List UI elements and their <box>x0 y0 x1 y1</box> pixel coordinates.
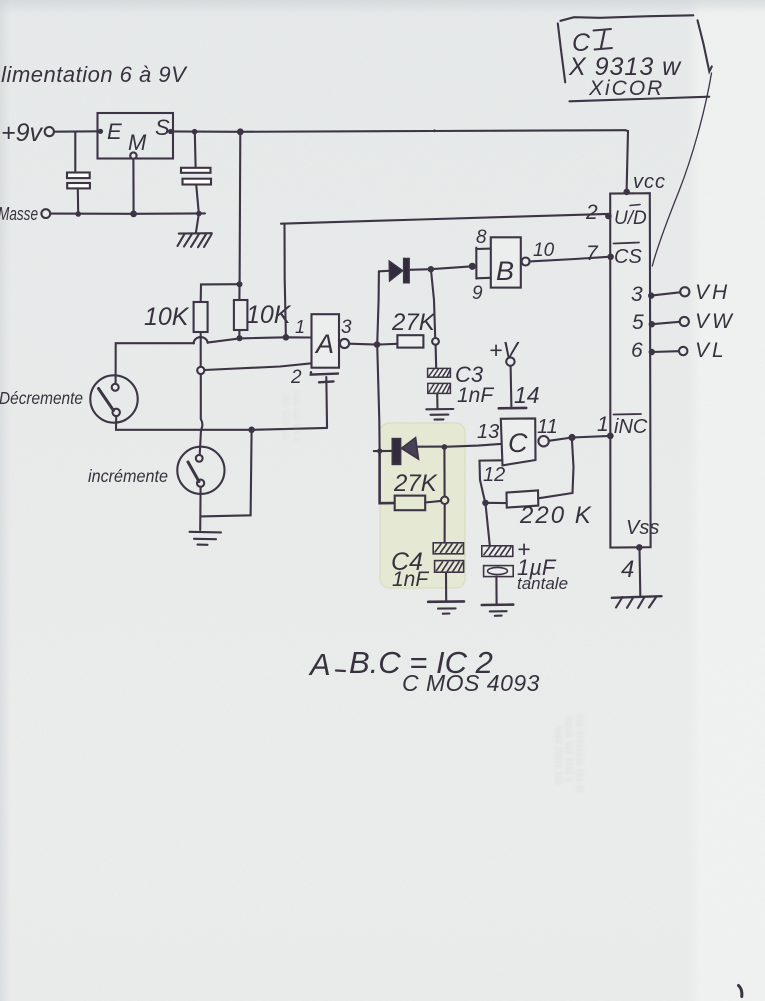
wire gate A output to node <box>349 343 377 346</box>
svg-text:B: B <box>496 256 514 286</box>
terminal +V circle <box>506 357 514 365</box>
svg-text:2: 2 <box>585 201 598 224</box>
wire junction to IC pin 1 <box>572 436 610 438</box>
svg-text:+V: +V <box>489 337 520 363</box>
wire R1 bottom lead <box>200 332 202 370</box>
resistor R1 10K body <box>194 302 208 332</box>
svg-text:1111 111 111 1: 1111 111 111 1 <box>292 390 301 442</box>
switch S1 bottom contact <box>113 409 120 416</box>
svg-text:8: 8 <box>476 227 487 248</box>
junction dot D2/R4 node <box>442 444 448 450</box>
svg-text:27K: 27K <box>393 470 438 497</box>
wire R2 bottom lead <box>238 330 240 338</box>
pin Vcc dot <box>623 189 630 196</box>
wire node A to gate A pin 2 <box>204 363 311 370</box>
capacitor C4 plate2 hatched <box>435 561 464 573</box>
svg-text:iNC: iNC <box>614 416 648 438</box>
svg-text:5: 5 <box>632 311 644 334</box>
wire pin2 cap vertical <box>325 377 328 428</box>
switch S1 Decremente circle <box>90 375 137 422</box>
pin 14 supply bar <box>499 407 526 410</box>
wire pin 5 to VW terminal <box>652 322 680 324</box>
CI label box left edge <box>558 23 565 82</box>
wire S2 bottom to ground <box>199 487 202 530</box>
highlight patch behind C4 area <box>380 423 465 588</box>
wire C5 to ground <box>495 577 497 605</box>
svg-text:1nF: 1nF <box>457 384 494 407</box>
svg-text:VW: VW <box>695 310 735 333</box>
capacitor C5 1uF plate1 hatched <box>482 546 513 557</box>
diode D2 cathode bar <box>392 439 400 465</box>
wire B output to IC pin7 <box>530 257 609 262</box>
switch S2 lever <box>188 462 199 482</box>
pen mark bottom right <box>739 986 742 997</box>
switch S2 top contact <box>196 455 203 462</box>
svg-text:incrémente: incrémente <box>88 466 168 486</box>
ground G3 under C3 <box>426 408 453 410</box>
wire D1 cathode to node B <box>409 268 431 271</box>
svg-text:27K: 27K <box>391 309 436 336</box>
svg-text:CS: CS <box>614 246 642 268</box>
wire left rail up to diode D1 anode <box>377 271 379 344</box>
gate B pin8 stub <box>476 247 496 250</box>
diode D1 triangle <box>389 261 402 281</box>
wire +9V rail from regulator to right corner <box>171 130 625 132</box>
svg-text:Vss: Vss <box>626 517 659 539</box>
pin 1 dot <box>607 433 614 440</box>
wire R4 circle down to C4 <box>444 504 446 543</box>
wire vertical feed to resistors <box>239 132 242 284</box>
svg-text:11: 11 <box>537 416 558 438</box>
wire masse rail <box>50 212 205 215</box>
junction dot D1/R3 node <box>428 266 434 272</box>
capacitor C2 plate2 <box>183 179 212 185</box>
R4 right terminal circle <box>441 497 448 504</box>
wire C output to junction <box>549 438 572 441</box>
capacitor C3 plate2 hatched <box>428 383 451 393</box>
svg-text:vcc: vcc <box>633 171 666 193</box>
switch S2 Incremente circle <box>177 447 224 494</box>
capacitor C1 plate1 <box>67 173 90 179</box>
pin 7 dot <box>607 253 614 260</box>
wire D2 anode to node C <box>418 446 444 448</box>
ground G1 <box>179 232 212 235</box>
resistor R3 27K body <box>397 335 423 347</box>
gate A box <box>312 314 340 368</box>
wire C3 to ground <box>436 394 438 409</box>
diode D1 cathode bar <box>404 258 410 282</box>
junction dot U/D feed on pin1 wire <box>283 334 290 341</box>
terminal VL circle <box>679 347 687 355</box>
resistor R5 220K body <box>507 490 539 507</box>
capacitor C1 plate2 <box>67 183 90 188</box>
wire left rail bottom corner to R4 <box>380 451 395 503</box>
svg-text:S: S <box>155 115 170 140</box>
pin 2 dot <box>605 213 612 220</box>
svg-text:U/D: U/D <box>614 208 647 229</box>
junction dot masse/C2 <box>196 211 202 217</box>
wire pin 4 to ground <box>638 548 641 596</box>
ground G4 under C4 <box>428 600 464 603</box>
CI label box bottom edge <box>570 97 710 102</box>
bleedthrough faint marks right <box>554 714 585 794</box>
regulator pin E dot <box>98 129 103 134</box>
terminal +9V circle <box>45 127 54 136</box>
svg-text:C MOS 4093: C MOS 4093 <box>402 670 540 696</box>
wire Vcc drop <box>626 130 629 191</box>
wire R3 circle down to C3 <box>435 345 438 368</box>
node junction on +9V rail above C1 <box>74 132 76 172</box>
svg-text:1nF: 1nF <box>392 568 429 591</box>
IC U1 X9313 box <box>610 193 650 547</box>
wire node pin1: decrement top to gate A pin 1 with hop <box>116 343 194 384</box>
regulator pin M circle <box>130 152 136 158</box>
junction circle node A (10K/R1 bottom) <box>197 367 204 374</box>
wire 220K right to C output junction <box>538 441 573 498</box>
ground G2 under switches <box>190 531 222 534</box>
wire C1 to masse rail <box>77 189 79 214</box>
wire rail to C2 <box>194 132 197 168</box>
terminal VW circle <box>680 317 689 326</box>
svg-text:12: 12 <box>483 464 505 486</box>
pin 6 dot <box>649 349 655 355</box>
diode D2 triangle <box>402 438 419 459</box>
svg-text:111 1111 111: 111 1111 111 <box>281 395 290 440</box>
svg-text:Alimentation 6 à 9V: Alimentation 6 à 9V <box>0 62 188 87</box>
svg-text:E: E <box>107 119 122 144</box>
wire node down to R3 right circle <box>431 269 435 337</box>
wire C4 to ground <box>445 572 447 601</box>
capacitor C4 plate1 hatched <box>433 543 463 554</box>
svg-text:1: 1 <box>295 317 305 337</box>
junction dot R2 on pin1 wire <box>236 335 242 341</box>
svg-text:tantale: tantale <box>517 574 568 593</box>
wire U/D vertical feed <box>285 224 286 338</box>
svg-text:VL: VL <box>695 339 727 362</box>
wire pin12 node to 220K <box>485 502 506 504</box>
terminal Masse circle <box>41 209 50 218</box>
svg-text:3: 3 <box>341 317 352 338</box>
svg-text:C: C <box>508 428 528 458</box>
svg-text:6: 6 <box>631 339 643 362</box>
svg-text:1: 1 <box>597 413 609 436</box>
CI label box top edge <box>561 15 694 20</box>
capacitor pin2 plate2 <box>319 380 334 383</box>
junction dot top rail feed <box>237 128 244 135</box>
wire S1 bottom to ground rail <box>116 416 327 430</box>
wire node A down to increment switch <box>200 374 203 455</box>
svg-text:1111 11111 111: 1111 11111 111 <box>554 726 564 785</box>
wire +9V rail left <box>54 130 99 132</box>
switch S1 lever <box>99 389 114 411</box>
switch S1 top contact <box>112 384 119 391</box>
svg-text:14: 14 <box>514 382 540 408</box>
switch S2 bottom contact <box>197 480 204 487</box>
callout curve from label to IC <box>652 73 711 266</box>
junction dot +9V rail above C2 <box>192 129 198 135</box>
svg-text:Décremente: Décremente <box>0 388 83 408</box>
wire node to gate C pin 13 <box>444 444 500 447</box>
capacitor C3 plate1 hatched <box>428 368 451 377</box>
wire C2 to masse rail <box>196 185 199 214</box>
terminal VH circle <box>680 287 689 296</box>
gate B pin9 stub <box>476 277 490 280</box>
svg-text:Masse: Masse <box>0 204 38 224</box>
junction dot gate B input <box>469 263 476 270</box>
svg-text:10K: 10K <box>144 303 190 331</box>
gate B box <box>491 237 521 287</box>
svg-text:111 11111111 111 11: 111 11111111 111 11 <box>575 714 585 794</box>
pin 3 dot <box>648 292 654 298</box>
wire pin 3 to VH terminal <box>651 292 680 295</box>
resistor R2 10K body <box>234 300 248 330</box>
gate A output bubble <box>340 339 349 348</box>
stray pen dot <box>433 129 436 132</box>
junction dot ground rail <box>248 427 255 434</box>
svg-text:4: 4 <box>621 556 634 583</box>
wire node to gate B input <box>431 266 472 269</box>
junction dot masse/C1 <box>75 211 81 217</box>
wire masse to ground <box>196 214 199 234</box>
resistor R4 27K body <box>395 496 426 511</box>
junction dot pin12 node <box>482 500 488 506</box>
junction dot masse/M <box>130 211 137 218</box>
ground G5 under C5 <box>482 603 513 606</box>
svg-text:10: 10 <box>533 240 555 261</box>
ground G6 under IC <box>612 596 662 598</box>
svg-text:9: 9 <box>472 283 483 304</box>
junction dot C output <box>568 434 575 441</box>
svg-text:XiCOR: XiCOR <box>588 77 664 100</box>
svg-text:A: A <box>314 329 334 359</box>
capacitor C5 plate2 hatched <box>484 566 514 577</box>
wire node down to R4 right circle <box>443 447 445 496</box>
wire ground rail drop right <box>201 430 252 517</box>
bleedthrough faint marks middle <box>281 390 301 442</box>
svg-text:VH: VH <box>695 281 730 304</box>
gate C box <box>501 418 536 465</box>
gate C output bubble <box>538 436 548 446</box>
wire feed to R1 top <box>201 284 240 302</box>
wire D1 anode lead <box>379 270 389 273</box>
pin 4 dot <box>636 544 643 551</box>
wire R3 left lead <box>377 343 397 346</box>
wire D2 cathode lead from left rail <box>374 450 393 452</box>
wire R4 right lead <box>425 501 441 503</box>
wire left rail down to lower section <box>377 345 379 451</box>
svg-text:M: M <box>128 130 147 155</box>
wire pin12 node down to C5 <box>485 503 489 546</box>
junction dot resistor feed <box>237 281 243 287</box>
junction left rail at D2 <box>377 448 382 453</box>
wire pin 12 stub <box>480 460 503 502</box>
wire U/D to IC pin2 <box>281 214 608 224</box>
wire +V down to pin14 bar <box>510 366 513 408</box>
wire R2 top lead <box>238 284 240 300</box>
gate B input bar <box>475 248 477 279</box>
gate B output bubble <box>522 258 530 266</box>
wire pin 6 to VL terminal <box>652 350 679 353</box>
wire M pin down to masse <box>132 159 134 214</box>
junction dot node out A <box>374 341 381 348</box>
pin 5 dot <box>649 321 655 327</box>
regulator pin S dot <box>168 129 173 134</box>
regulator U3 box EMS <box>98 113 174 159</box>
svg-text:+9v: +9v <box>1 119 44 147</box>
CI label box right edge <box>698 20 712 71</box>
svg-text:3: 3 <box>631 283 643 306</box>
svg-text:11111 111 1111 1: 11111 111 1111 1 <box>564 716 574 783</box>
svg-text:A: A <box>308 647 331 682</box>
svg-text:13: 13 <box>477 421 499 443</box>
svg-text:220 K: 220 K <box>519 502 593 529</box>
svg-text:7: 7 <box>586 242 599 265</box>
R3 right terminal circle <box>432 338 439 345</box>
capacitor pin2 plate1 <box>311 372 338 374</box>
svg-text:2: 2 <box>290 367 302 388</box>
capacitor C2 plate1 <box>181 168 211 173</box>
